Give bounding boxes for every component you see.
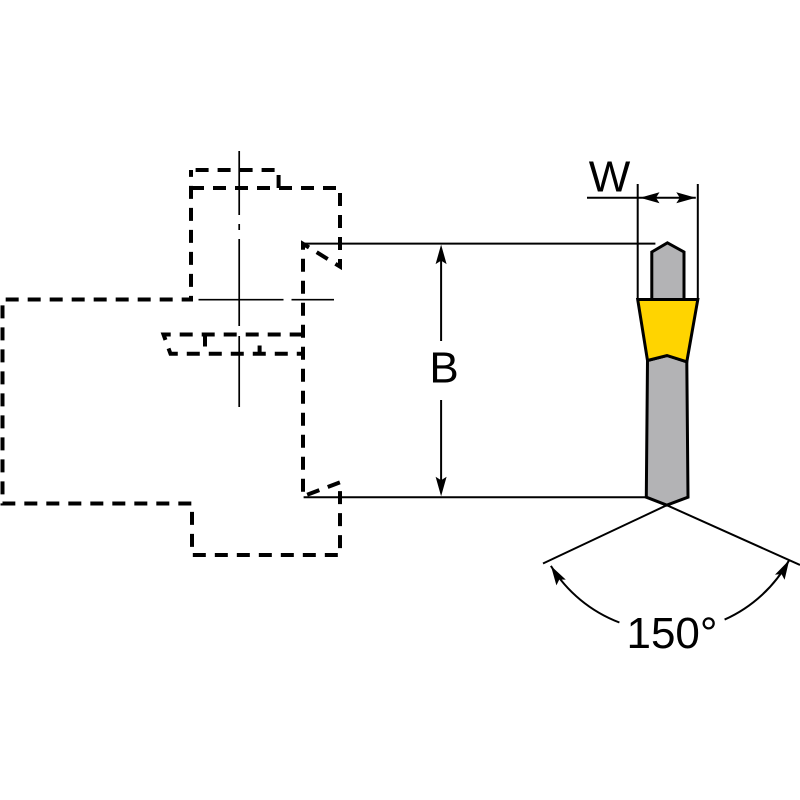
carbide insert (yellow) xyxy=(638,300,698,362)
arc right arrowhead xyxy=(775,560,789,580)
insert pocket tab (hidden outline) xyxy=(164,335,303,355)
angle dimension arc right segment xyxy=(725,560,790,620)
blade holder top step (hidden outline) xyxy=(191,170,279,188)
dimension W left arrowhead xyxy=(640,192,660,203)
dimension W right arrowhead xyxy=(676,192,696,203)
dimension B bottom extension line xyxy=(304,496,647,498)
tool tip (grey) xyxy=(652,243,684,301)
arc left arrowhead xyxy=(551,566,566,586)
horizontal centerline xyxy=(199,299,335,301)
tool shank (grey) with pointed bottom xyxy=(646,356,688,506)
svg-text:W: W xyxy=(589,153,631,202)
dimension W left extension line xyxy=(637,184,639,299)
dimension B line xyxy=(440,250,442,492)
dimension W right extension line xyxy=(697,184,699,299)
svg-text:150°: 150° xyxy=(626,609,717,658)
blade holder main outline (hidden, dashed) xyxy=(3,170,341,555)
dimension B upper arrowhead xyxy=(436,245,447,265)
right 150-degree angle leg xyxy=(667,505,800,565)
svg-text:B: B xyxy=(429,344,458,393)
vertical centerline xyxy=(238,151,240,407)
dimension W line xyxy=(587,197,696,199)
dimension B top extension line xyxy=(303,243,656,245)
dimension B lower arrowhead xyxy=(436,477,447,497)
left 150-degree angle leg xyxy=(543,505,667,563)
angle dimension arc left segment xyxy=(551,566,620,623)
